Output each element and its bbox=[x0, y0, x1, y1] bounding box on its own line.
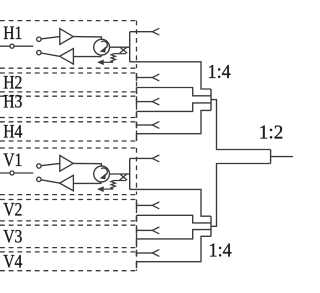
svg-text:H3: H3 bbox=[3, 91, 22, 112]
svg-text:1:2: 1:2 bbox=[259, 122, 284, 144]
svg-text:1:4: 1:4 bbox=[208, 61, 231, 83]
svg-text:1:4: 1:4 bbox=[209, 239, 232, 261]
svg-text:V3: V3 bbox=[3, 227, 22, 248]
svg-text:V4: V4 bbox=[3, 252, 23, 273]
svg-text:V1: V1 bbox=[3, 150, 22, 171]
svg-text:V2: V2 bbox=[3, 200, 22, 221]
svg-text:H2: H2 bbox=[3, 73, 22, 94]
svg-text:H4: H4 bbox=[3, 121, 23, 142]
svg-text:H1: H1 bbox=[3, 23, 22, 44]
